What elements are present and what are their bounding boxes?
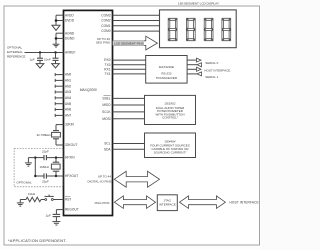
- pin MISO: [102, 103, 144, 107]
- pin TX0: [105, 63, 146, 67]
- svg-text:DS1802: DS1802: [165, 101, 176, 105]
- pin AGND: [56, 31, 75, 35]
- pin SCL: [104, 142, 144, 146]
- arrow left (serial1): [197, 72, 202, 76]
- pin HFXOUT: [47, 174, 79, 178]
- ground (reset): [17, 200, 24, 207]
- svg-text:MAX3232E: MAX3232E: [159, 65, 175, 69]
- svg-text:COM2: COM2: [101, 19, 110, 23]
- junction dot: [55, 175, 57, 177]
- svg-text:DVDD: DVDD: [65, 19, 75, 23]
- IC U3 DS1802: [145, 95, 196, 124]
- capacitor C1 1uF: [30, 53, 44, 64]
- svg-text:SERIAL 1: SERIAL 1: [205, 75, 218, 79]
- svg-text:RX0: RX0: [104, 58, 110, 62]
- crystal Y1 32.768kHz: [37, 125, 61, 145]
- svg-text:COM0: COM0: [101, 29, 110, 33]
- 7-segment digit 3: [204, 18, 213, 40]
- junction dot: [54, 51, 56, 53]
- svg-text:SEG PINS: SEG PINS: [96, 41, 110, 45]
- svg-text:DIGITAL I/O PINS: DIGITAL I/O PINS: [87, 179, 111, 183]
- svg-text:COM1: COM1: [101, 24, 110, 28]
- svg-text:AN1: AN1: [65, 79, 71, 83]
- svg-text:MOSI: MOSI: [102, 117, 110, 121]
- pin TX1: [105, 72, 146, 76]
- svg-text:RST: RST: [65, 198, 71, 202]
- svg-text:22pF: 22pF: [42, 180, 49, 184]
- svg-text:32.768kHz: 32.768kHz: [37, 133, 52, 137]
- junction dot: [34, 156, 36, 158]
- ground (open triangle): [52, 64, 60, 68]
- capacitor 22pF (bottom): [35, 173, 49, 183]
- svg-text:AVREF: AVREF: [65, 51, 75, 55]
- resistor R1 10k: [20, 192, 44, 202]
- junction dot: [55, 19, 58, 22]
- svg-text:TX1: TX1: [105, 72, 111, 76]
- svg-text:RX1: RX1: [104, 67, 110, 71]
- svg-text:AN0: AN0: [65, 73, 71, 77]
- junction dot: [55, 156, 57, 158]
- arrow right (serial0): [197, 58, 202, 62]
- svg-text:32KIN: 32KIN: [65, 123, 75, 127]
- pin 32KIN: [56, 123, 75, 127]
- ground: [25, 158, 32, 167]
- wire ground rail: [34, 158, 36, 176]
- bus arrow digital I/O: [114, 171, 159, 187]
- junction dot: [55, 37, 58, 40]
- svg-text:INTERFACE: INTERFACE: [159, 202, 176, 206]
- LCD display module: [160, 2, 237, 48]
- power symbol (open triangle): [52, 25, 60, 30]
- pin AVREF: [25, 51, 76, 55]
- label UP TO 40 SEG PINS: [96, 37, 110, 45]
- pin RST: [65, 197, 71, 202]
- svg-text:SCL: SCL: [104, 142, 110, 146]
- svg-text:AGND: AGND: [65, 31, 75, 35]
- node label OPTIONAL EXTERNAL REFERENCE: [7, 45, 26, 58]
- svg-text:160-SEGMENT LCD DISPLAY: 160-SEGMENT LCD DISPLAY: [178, 2, 219, 6]
- svg-text:AN7: AN7: [65, 114, 71, 118]
- 7-segment digit 1: [168, 18, 177, 40]
- junction dot: [34, 175, 36, 177]
- IC U4 DS4404: [145, 133, 196, 158]
- capacitor 22pF (top): [35, 150, 49, 161]
- svg-text:HFXIN: HFXIN: [65, 156, 75, 160]
- svg-text:AN2: AN2: [65, 84, 71, 88]
- capacitor C2 10nF: [44, 53, 59, 64]
- arrow right (serial1): [197, 67, 202, 71]
- pin SDA: [104, 147, 145, 151]
- bus arrow LCD SEGMENT PINS: [113, 36, 158, 50]
- pin RX0: [104, 58, 145, 62]
- svg-text:OPTIONAL: OPTIONAL: [7, 45, 23, 49]
- pin DGND: [56, 37, 75, 41]
- optional HF crystal section (dashed box): [14, 148, 63, 186]
- svg-text:JTAG PINS: JTAG PINS: [94, 201, 109, 205]
- bus arrow JTAG: [114, 196, 155, 209]
- svg-text:MAXQ2000: MAXQ2000: [80, 88, 97, 92]
- wire serial0 out: [187, 59, 196, 61]
- svg-text:DGND: DGND: [65, 37, 75, 41]
- svg-text:SOURCING CURRENT*: SOURCING CURRENT*: [154, 151, 188, 155]
- svg-text:10nF: 10nF: [44, 58, 51, 62]
- label UP TO 44 I/O PINS: [87, 175, 111, 184]
- svg-text:EXTERNAL: EXTERNAL: [7, 50, 23, 54]
- svg-text:AN6: AN6: [65, 108, 71, 112]
- IC U2 MAX3232E RS-232 transceiver: [146, 56, 187, 84]
- wire AGND/DGND tie: [55, 33, 57, 44]
- svg-text:OPTIONAL: OPTIONAL: [16, 181, 32, 185]
- pin COM3: [101, 13, 159, 17]
- svg-text:AN3: AN3: [65, 90, 71, 94]
- svg-text:SDA: SDA: [104, 147, 111, 151]
- svg-text:TX0: TX0: [105, 63, 111, 67]
- svg-text:SERIAL 0: SERIAL 0: [205, 61, 218, 65]
- svg-text:AN4: AN4: [65, 96, 71, 100]
- pin SSEL: [102, 96, 144, 101]
- svg-text:1µF: 1µF: [46, 214, 51, 218]
- svg-text:MISO: MISO: [102, 103, 111, 107]
- svg-text:HOST INTERFACE: HOST INTERFACE: [204, 68, 230, 72]
- svg-text:HOST INTERFACE: HOST INTERFACE: [230, 201, 259, 205]
- ground: [53, 44, 60, 47]
- pushbutton SW1: [45, 195, 64, 201]
- svg-text:REGOUT: REGOUT: [65, 208, 79, 212]
- wire AVDD/DVDD tie: [55, 15, 57, 25]
- pin COM2: [101, 19, 159, 23]
- junction dot: [39, 51, 41, 53]
- arrow left (serial0): [197, 63, 202, 67]
- pin 32KOUT: [56, 143, 77, 147]
- pin REGOUT: [56, 208, 78, 212]
- svg-text:UP TO 44: UP TO 44: [98, 175, 112, 179]
- pin RX1: [104, 67, 145, 71]
- svg-text:SSEL: SSEL: [102, 97, 110, 101]
- bus arrow JTAG to host: [180, 196, 226, 209]
- svg-text:REFERENCE: REFERENCE: [7, 55, 26, 59]
- svg-text:TRANSCEIVER: TRANSCEIVER: [156, 76, 178, 80]
- pin SCLK: [102, 110, 144, 114]
- wire serial0 in: [187, 64, 197, 66]
- svg-text:AVDD: AVDD: [65, 13, 74, 17]
- pin COM0: [101, 29, 159, 33]
- 7-segment digit 4: [222, 18, 231, 40]
- svg-text:22pF: 22pF: [42, 150, 49, 154]
- wire serial1 in: [187, 73, 197, 75]
- pins AN0-AN7: [55, 73, 71, 118]
- svg-text:CONTROL*: CONTROL*: [162, 116, 179, 120]
- wire to ground: [28, 157, 35, 159]
- svg-text:COM3: COM3: [101, 13, 110, 17]
- pin COM1: [101, 24, 159, 28]
- IC U1 MAXQ2000: [64, 10, 113, 215]
- pin MOSI: [102, 117, 144, 121]
- ground (open triangle): [36, 64, 44, 68]
- JTAG interface box: [157, 195, 177, 211]
- svg-text:AN5: AN5: [65, 102, 71, 106]
- svg-text:*APPLICATION DEPENDENT.: *APPLICATION DEPENDENT.: [8, 238, 67, 243]
- ground (REGOUT cap): [52, 222, 60, 225]
- wire serial1 out: [187, 68, 196, 70]
- pin HFXIN: [47, 156, 76, 160]
- pin DVDD: [56, 19, 75, 23]
- svg-text:16MHz: 16MHz: [40, 165, 50, 169]
- 7-segment digit 2: [186, 18, 195, 40]
- svg-text:SCLK: SCLK: [102, 110, 111, 114]
- crystal Y2 16MHz: [40, 158, 61, 176]
- pin AVDD: [56, 13, 74, 17]
- svg-text:LCD SEGMENT PINS: LCD SEGMENT PINS: [114, 42, 143, 46]
- svg-text:10kΩ: 10kΩ: [28, 192, 36, 196]
- svg-text:32KOUT: 32KOUT: [65, 143, 77, 147]
- svg-text:HFXOUT: HFXOUT: [65, 174, 78, 178]
- svg-text:1µF: 1µF: [30, 58, 35, 62]
- capacitor 1uF (REGOUT): [46, 210, 61, 222]
